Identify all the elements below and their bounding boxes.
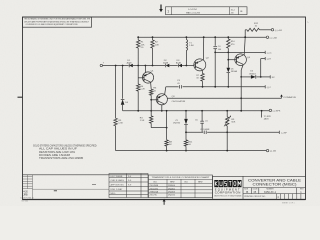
wire osc feedback left (166, 86, 179, 88)
svg-text:COVERED BY U.S. AND FOREIGN: COVERED BY U.S. AND FOREIGN EQUIPMENT CO… (26, 23, 79, 26)
wire Z1 bottom (185, 125, 187, 132)
wire R2 foot to D2 (153, 65, 166, 67)
resistor R10 (227, 39, 230, 48)
wire D5 lead (241, 76, 251, 78)
conversion chart box (149, 175, 213, 198)
svg-text:1.2K: 1.2K (140, 89, 145, 91)
svg-text:K250-3C-1: K250-3C-1 (264, 191, 277, 194)
wire R8 bottom (166, 146, 168, 150)
capacitor C3 (180, 85, 182, 88)
svg-text:2SC1096: 2SC1096 (150, 188, 159, 190)
wire D3 to Q2 base (182, 65, 194, 67)
svg-text:OLD: OLD (153, 181, 158, 183)
node feedback Q2 emitter (202, 86, 204, 88)
svg-text:2SB324A: 2SB324A (150, 191, 159, 194)
svg-text:(-) C: (-) C (267, 87, 272, 89)
svg-text:SHEET 1 OF 1: SHEET 1 OF 1 (282, 203, 295, 205)
revision strip dividers (172, 7, 239, 15)
transistor Q4 (235, 54, 247, 66)
wire R3 top stub (150, 111, 152, 116)
approval table entries (111, 176, 132, 195)
svg-text:2N4403: 2N4403 (168, 192, 176, 194)
zener Z1 (184, 119, 188, 125)
terminal +B2 (266, 36, 268, 38)
svg-text:50K: 50K (231, 122, 235, 124)
terminal NC (269, 75, 271, 78)
resistor R4 (137, 84, 140, 91)
wire base node to D6 (227, 60, 229, 68)
parts list band lower rule (33, 188, 110, 190)
parts area pencil dash (54, 190, 57, 192)
diode D5 (251, 75, 256, 79)
node T1 foot (186, 65, 188, 67)
terminal common (281, 95, 283, 98)
reference arrow below chart (163, 199, 166, 205)
revision strip box (166, 7, 248, 15)
node V3 input (137, 65, 139, 67)
node rail T1 (186, 36, 188, 38)
node C4 feedback (214, 86, 216, 88)
wire Q1 collector riser (144, 66, 146, 73)
wire R10 top stub (227, 37, 229, 39)
diode D3 (178, 64, 182, 68)
svg-text:(+) SPK: (+) SPK (273, 110, 281, 112)
lower rail right (207, 131, 279, 133)
revision arrow (159, 5, 163, 13)
wire spk tap drop (261, 111, 263, 118)
capacitor C6 (204, 131, 206, 134)
wire V1 upper (115, 66, 117, 119)
node V2 top (122, 65, 124, 67)
wire R1 top stub (137, 37, 139, 40)
wire R11 bottom (185, 146, 187, 150)
svg-text:A14B: A14B (127, 62, 133, 65)
transistor Q3 oscillator (156, 94, 167, 105)
wire Q3 collector riser (165, 87, 166, 95)
sheet border frame (23, 17, 306, 200)
wire Q1 emitter lead (150, 82, 153, 89)
terminal SPK plus (269, 109, 271, 111)
logo cell borders (213, 176, 244, 200)
conversion chart rules (149, 179, 213, 197)
wire Q2 collector riser (202, 37, 204, 60)
wire R7 to feedback line (202, 81, 204, 87)
svg-text:JACK: JACK (264, 118, 270, 121)
svg-text:NEW: NEW (198, 181, 203, 183)
wire V2 upper (122, 66, 124, 99)
wire R8 top (166, 111, 168, 140)
revision strip description (186, 9, 201, 14)
svg-text:MFG: MFG (111, 193, 116, 195)
node Q4 base (227, 59, 229, 61)
wire osc feedback right (183, 86, 266, 88)
resistor R6 (150, 89, 153, 95)
wire Q2 emitter lead (201, 70, 203, 73)
svg-text:COMMON: COMMON (283, 97, 296, 99)
wire R11 top (185, 132, 187, 140)
wire D5 to NC (256, 76, 270, 78)
svg-text:1.5K: 1.5K (118, 123, 123, 125)
wire R2 to input wire (152, 48, 154, 66)
oscillator output line (167, 97, 281, 99)
svg-text:OSCILLATOR: OSCILLATOR (172, 100, 186, 103)
wire R1 to input wire (137, 48, 139, 66)
node rail Q2 collector (203, 36, 205, 38)
wire R4 to mid rail (137, 91, 139, 111)
svg-text:2SC735: 2SC735 (150, 195, 158, 197)
drawing title text (248, 178, 302, 186)
coil T1 (186, 40, 187, 51)
corner date scribble (23, 192, 28, 197)
bottom rail (116, 150, 267, 152)
node Q4 emitter D5 (240, 76, 242, 78)
svg-text:J-O-1294: J-O-1294 (188, 9, 198, 11)
node bias R10 (227, 52, 229, 54)
node stub2 join (260, 76, 262, 78)
quantity mini table (23, 175, 33, 200)
svg-text:1.5K: 1.5K (140, 120, 145, 122)
terminal +B1 (271, 29, 273, 31)
node mid spk tap (261, 110, 263, 112)
svg-text:DR T.WEBB: DR T.WEBB (111, 176, 123, 178)
node output Q4 emitter (240, 97, 242, 99)
svg-text:(+) C: (+) C (267, 52, 272, 54)
wire R9 bottom (226, 126, 228, 151)
svg-text:1.8H: 1.8H (189, 45, 194, 47)
svg-text:CHK R.LANG: CHK R.LANG (111, 179, 125, 182)
node Q1 collector (145, 65, 147, 67)
svg-text:OLD: OLD (184, 181, 189, 183)
svg-text:(+) +B2: (+) +B2 (270, 37, 278, 39)
wire input to D1 (103, 65, 129, 67)
sheet count cells (276, 194, 301, 200)
svg-text:MAKERS PRODUCTS OF CHANUTE: MAKERS PRODUCTS OF CHANUTE KANSAS (214, 194, 242, 197)
svg-text:A14B: A14B (176, 62, 182, 65)
diode D6 (227, 68, 231, 73)
wire node C to R2 foot (145, 65, 152, 67)
approval signature table (109, 174, 148, 198)
svg-text:1N34A: 1N34A (231, 70, 238, 73)
node mid R8 (166, 110, 168, 112)
wire R3 foot across (151, 127, 166, 129)
svg-text:CIRCUITS ARE PROPRIETARY IN NA: CIRCUITS ARE PROPRIETARY IN NATURE AND S… (24, 20, 89, 23)
node lower rail R11 (185, 131, 187, 133)
svg-text:WAS J-O-1284: WAS J-O-1284 (186, 11, 201, 14)
wire C4 top (214, 37, 216, 46)
wire T1 top stub (185, 37, 187, 39)
node Q4 emitter mid rail (240, 110, 242, 112)
terminal minus C (264, 85, 266, 88)
node lower rail R9 (226, 131, 228, 133)
svg-text:CONNECTOR (MISC): CONNECTOR (MISC) (253, 182, 297, 186)
node rail R2 (152, 36, 154, 38)
svg-text:C6 100MF: C6 100MF (200, 129, 210, 131)
diode D4 (121, 99, 125, 104)
title block top rule (213, 175, 306, 177)
svg-text:2SC458B: 2SC458B (150, 185, 159, 187)
diode D1 (129, 64, 133, 68)
wire Q4 emitter to output (240, 77, 242, 111)
wire R6 to Q3 base node (150, 95, 152, 111)
input terminal P1 (100, 64, 102, 66)
node mid C5 (201, 110, 203, 112)
svg-text:2N4401: 2N4401 (168, 188, 176, 190)
wire D2 to D3 (169, 65, 178, 67)
revision strip date and approval cells (231, 9, 243, 14)
svg-text:JRB: JRB (23, 195, 28, 197)
wire Q4 emitter drop (241, 65, 243, 70)
parts list dash mark (92, 184, 96, 186)
terminal SPK minus (278, 131, 280, 134)
title block rules (243, 188, 306, 194)
svg-text:2N2222: 2N2222 (168, 195, 176, 197)
svg-text:NEW: NEW (170, 181, 175, 183)
node bias tap (214, 52, 216, 54)
resistor R5 (114, 118, 117, 126)
conversion chart entries (150, 185, 176, 197)
node feedback D6 (227, 86, 229, 88)
potentiometer R9 (226, 117, 229, 126)
node R2 foot (152, 65, 154, 67)
KUSTOM logo squares (214, 180, 241, 187)
svg-text:(-) SP: (-) SP (281, 132, 287, 134)
svg-text:B: B (246, 190, 248, 194)
svg-text:1N4735: 1N4735 (173, 122, 181, 124)
wire R12 to terminal (260, 29, 272, 31)
svg-text:NC: NC (272, 77, 276, 79)
node mid Z1 (185, 110, 187, 112)
size and code cells (244, 189, 304, 194)
svg-text:ENG D.RAY: ENG D.RAY (111, 188, 123, 191)
resistor R2 (151, 40, 154, 48)
node bottom R11 (185, 150, 187, 152)
wire R3 bottom (150, 123, 152, 127)
node rail jog B1 (244, 36, 246, 38)
capacitor C4 (213, 47, 217, 49)
terminal stub2 (264, 57, 266, 60)
svg-text:10K: 10K (155, 44, 159, 46)
svg-text:CORPORATION: CORPORATION (215, 192, 241, 195)
resistor R3 (150, 116, 153, 123)
node R8 mid join (166, 127, 168, 129)
wire Z1 top (185, 111, 187, 119)
wire stub2 riser (260, 59, 262, 77)
top supply rail (138, 36, 266, 38)
node rail R10 (227, 36, 229, 38)
node bottom R8 (166, 150, 168, 152)
svg-text:5%: 5% (141, 47, 144, 49)
terminal bias (264, 51, 266, 54)
node mid V3 (137, 110, 139, 112)
svg-text:PRINTED CIRCUIT NO.: PRINTED CIRCUIT NO. (244, 196, 266, 198)
resistor R12 (247, 28, 260, 31)
wire V2 lower (122, 105, 124, 111)
node mid rail R6 (150, 110, 152, 112)
diode D2 (166, 64, 170, 68)
wire Q3 base stub (151, 99, 156, 101)
node Q3 base (150, 99, 152, 101)
wire T1 to base wire (185, 51, 187, 66)
resistor R11 (184, 140, 187, 146)
node V1 top (115, 65, 117, 67)
svg-text:APP B.ROSS: APP B.ROSS (111, 184, 125, 187)
wire Q4 base stub (228, 59, 235, 61)
node bottom R9 (226, 150, 228, 152)
capacitor C5 (200, 121, 204, 123)
wire V1 lower (115, 126, 117, 151)
svg-text:A14B: A14B (163, 62, 169, 65)
svg-text:DRW FORM 10: DRW FORM 10 (21, 197, 34, 199)
wire R9 top (226, 111, 228, 117)
bias wire (215, 51, 265, 53)
wire R2 top stub (152, 37, 154, 40)
svg-text:TRANSISTOR & DIODE CONVERSION: TRANSISTOR & DIODE CONVERSION CHART (152, 176, 211, 179)
node rail Q4 collector (244, 36, 246, 38)
wire D1 to node C (133, 65, 146, 67)
wire C5 top (201, 111, 203, 121)
resistor R7 (201, 74, 204, 82)
wire stub2 across (261, 58, 266, 60)
wire B1 line left (245, 29, 247, 31)
wire jog up to B1 line (244, 30, 246, 37)
svg-text:(-) E: (-) E (267, 59, 272, 61)
wire V3 to base level (137, 66, 139, 85)
terminal minus B2 (266, 149, 268, 151)
conversion chart headers (153, 181, 203, 183)
transistor Q1 (142, 72, 153, 83)
resistor R8 (165, 140, 168, 146)
svg-text:1N4001: 1N4001 (249, 73, 257, 75)
wire Q4 collector riser (244, 37, 245, 55)
svg-text:4-20: 4-20 (23, 192, 28, 194)
svg-text:NO 102: NO 102 (22, 201, 29, 203)
parts list band top rule (23, 174, 149, 176)
svg-text:TRANSISTORS ARE 2SC1096B: TRANSISTORS ARE 2SC1096B (39, 157, 83, 160)
svg-text:(-) -B2: (-) -B2 (270, 151, 277, 153)
wire Q3 emitter drop (161, 105, 163, 111)
node Q3 emitter rail (161, 110, 163, 112)
svg-text:THIS SCHEMATIC IS FURNISHED ON: THIS SCHEMATIC IS FURNISHED ONLY FOR TES… (24, 18, 90, 21)
wire R10 to bias (227, 48, 229, 60)
notice box (23, 17, 92, 27)
wire C4 bottom (214, 49, 216, 87)
node rail R1 (137, 36, 139, 38)
resistor R1 (137, 40, 140, 48)
svg-text:1: 1 (167, 9, 169, 13)
right margin zone tick (307, 22, 309, 24)
mid rail (123, 110, 270, 112)
wire Q1 base stub (138, 77, 142, 79)
svg-text:2N3904: 2N3904 (168, 185, 176, 187)
wire D6 to feedback (227, 73, 229, 87)
node rail C4 (214, 36, 216, 38)
lower rail left (186, 131, 203, 133)
sheet bottom edge emphasis (23, 199, 306, 201)
wire C5 bottom (201, 123, 203, 132)
form number bottom left (21, 197, 34, 202)
node mid R9 (226, 110, 228, 112)
left margin zone tick (18, 96, 23, 98)
svg-text:(+) +B1: (+) +B1 (275, 30, 283, 32)
transistor Q2 (194, 59, 206, 71)
